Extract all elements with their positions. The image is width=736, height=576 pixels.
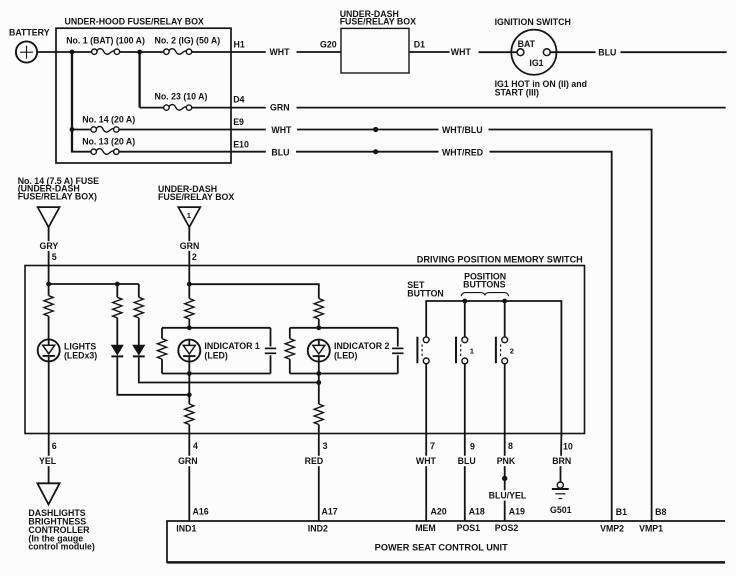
wire IG feed vertical xyxy=(138,52,140,108)
switch position button 1 xyxy=(456,301,475,364)
svg-text:No. 1 (BAT) (100 A): No. 1 (BAT) (100 A) xyxy=(66,36,145,46)
svg-text:GRN: GRN xyxy=(270,102,290,112)
svg-text:POS2: POS2 xyxy=(495,523,519,533)
dashlights brightness controller label xyxy=(28,508,95,552)
wire RED to A17 xyxy=(318,466,320,521)
svg-text:INDICATOR 2: INDICATOR 2 xyxy=(334,341,390,351)
svg-text:BLU: BLU xyxy=(598,47,616,57)
ground G501 xyxy=(550,482,572,515)
svg-text:No. 23 (10 A): No. 23 (10 A) xyxy=(155,92,208,102)
svg-text:YEL: YEL xyxy=(39,456,57,466)
fuse No.2 (IG) (50 A) xyxy=(155,36,221,55)
svg-text:A20: A20 xyxy=(431,507,447,517)
wire WHT to ignition switch xyxy=(479,51,518,53)
wire GRN vertical into box xyxy=(188,251,190,299)
node E9 splice xyxy=(373,127,378,132)
svg-text:No. 14 (20 A): No. 14 (20 A) xyxy=(82,114,135,124)
svg-text:E9: E9 xyxy=(233,117,244,127)
svg-text:9: 9 xyxy=(470,441,475,451)
LED lights (LEDx3) xyxy=(38,339,98,361)
wire GRN to A16 xyxy=(188,466,190,521)
wire GRY vertical into box xyxy=(48,251,50,296)
wire ignition to BLU xyxy=(550,51,595,53)
wire PNK to splice xyxy=(504,466,506,490)
svg-text:3: 3 xyxy=(323,441,328,451)
svg-text:PNK: PNK xyxy=(497,456,516,466)
svg-text:G20: G20 xyxy=(320,39,337,49)
wire WHT to A20 xyxy=(425,466,427,521)
wire fuse13 to box edge E10 xyxy=(119,151,265,153)
node pos2 bus junction xyxy=(502,299,507,304)
connector triangle 1 GRN xyxy=(178,207,200,227)
node IG feed junction xyxy=(137,50,142,55)
svg-text:B1: B1 xyxy=(616,507,627,517)
svg-text:FUSE/RELAY BOX: FUSE/RELAY BOX xyxy=(340,16,416,26)
svg-text:GRY: GRY xyxy=(40,241,59,251)
wire battery feed vertical xyxy=(71,52,73,152)
svg-text:D1: D1 xyxy=(414,39,425,49)
node PNK to BLU/YEL splice xyxy=(502,476,507,481)
node battery feed junction xyxy=(70,50,75,55)
resistor lights branch xyxy=(44,296,53,317)
diode branch 2 xyxy=(133,284,319,383)
svg-text:WHT/BLU: WHT/BLU xyxy=(442,125,483,135)
wire set button down pin 7 xyxy=(425,364,427,456)
svg-text:BLU/YEL: BLU/YEL xyxy=(489,490,527,500)
wire WHT/BLU to corner and down to B8 xyxy=(489,130,652,522)
fuse No.13 (20 A) xyxy=(82,136,135,154)
wire BLU to A18 xyxy=(464,466,466,521)
svg-text:BRN: BRN xyxy=(552,456,571,466)
svg-text:D4: D4 xyxy=(233,94,244,104)
svg-text:5: 5 xyxy=(52,252,57,262)
wire GRN vertical upper xyxy=(188,227,190,241)
svg-text:WHT: WHT xyxy=(270,47,291,57)
wire WHT/RED to corner and down to B1 xyxy=(490,152,612,521)
indicator2 parallel frame xyxy=(285,328,403,374)
svg-text:(LEDx3): (LEDx3) xyxy=(64,350,97,360)
svg-text:GRN: GRN xyxy=(178,456,198,466)
wire pin 3 xyxy=(318,425,320,456)
svg-text:G501: G501 xyxy=(550,505,572,515)
svg-text:6: 6 xyxy=(52,441,57,451)
wire D1 to WHT xyxy=(409,51,450,53)
svg-text:8: 8 xyxy=(508,441,513,451)
wire WHT to under-dash box xyxy=(297,51,342,53)
wire pin 4 xyxy=(188,425,190,456)
node pos1 bus junction xyxy=(462,299,467,304)
wire resistor to LED xyxy=(48,316,50,339)
svg-text:POS1: POS1 xyxy=(457,523,481,533)
wire WHT E9 with splice xyxy=(297,129,439,131)
node GRN bus junction xyxy=(187,282,192,287)
svg-text:2: 2 xyxy=(510,347,514,356)
battery xyxy=(9,28,50,63)
wire BLU/YEL to A19 xyxy=(504,501,506,521)
svg-text:IND2: IND2 xyxy=(308,523,328,533)
node diode1 to indicator1 xyxy=(187,392,192,397)
wire resistor to indicator2 xyxy=(318,319,320,328)
wire BRN to ground xyxy=(560,466,562,482)
node indicator2 top xyxy=(316,325,321,330)
LED indicator 1 xyxy=(178,340,260,362)
svg-text:UNDER-HOOD FUSE/RELAY BOX: UNDER-HOOD FUSE/RELAY BOX xyxy=(65,16,204,26)
svg-text:IND1: IND1 xyxy=(176,523,196,533)
wire fuse14 to box edge E9 xyxy=(119,129,265,131)
svg-text:BAT: BAT xyxy=(518,39,536,49)
wire BLU E10 with splice xyxy=(296,151,439,153)
position buttons label xyxy=(461,271,508,296)
wire indicator1 down xyxy=(188,362,190,404)
resistor indicator1 bottom xyxy=(185,404,194,425)
switch set button xyxy=(417,337,429,364)
resistor indicator2 top xyxy=(314,299,323,320)
under-dash fuse/relay box label (connector 1) xyxy=(158,184,234,202)
set button label xyxy=(407,280,444,298)
node indicator1 top xyxy=(187,325,192,330)
wire pos2 down pin 8 xyxy=(504,364,506,456)
svg-text:IGNITION SWITCH: IGNITION SWITCH xyxy=(495,17,571,27)
node GRY bus junction xyxy=(46,282,51,287)
ignition switch xyxy=(495,17,587,98)
driving position memory switch box xyxy=(25,254,585,433)
svg-text:RED: RED xyxy=(305,456,324,466)
svg-text:No. 2 (IG) (50 A): No. 2 (IG) (50 A) xyxy=(155,36,221,46)
wire indicator2 down xyxy=(318,362,320,404)
wire battery to fuse box xyxy=(37,51,91,53)
svg-text:2: 2 xyxy=(192,252,197,262)
switch position button 2 xyxy=(496,301,514,364)
svg-text:BLU: BLU xyxy=(271,147,289,157)
wire switch bus xyxy=(426,301,561,434)
svg-text:WHT: WHT xyxy=(451,47,472,57)
indicator1 parallel frame xyxy=(157,328,276,374)
svg-text:(LED): (LED) xyxy=(334,350,358,360)
wire GRY vertical upper xyxy=(48,227,50,241)
svg-text:control module): control module) xyxy=(28,542,95,552)
svg-text:WHT: WHT xyxy=(416,456,437,466)
svg-text:GRN: GRN xyxy=(180,241,200,251)
wire pos1 down pin 9 xyxy=(464,364,466,456)
LED indicator 2 xyxy=(308,340,390,362)
svg-text:WHT: WHT xyxy=(271,125,292,135)
wire BLU to right edge xyxy=(621,51,727,53)
svg-text:START (III): START (III) xyxy=(495,88,539,98)
svg-text:A17: A17 xyxy=(322,507,338,517)
node diode1 branch junction xyxy=(115,282,120,287)
node E10 splice xyxy=(373,149,378,154)
node indicator2 bottom xyxy=(316,371,321,376)
svg-text:A16: A16 xyxy=(193,507,209,517)
resistor indicator2 bottom xyxy=(314,404,323,425)
svg-text:(LED): (LED) xyxy=(204,350,228,360)
svg-text:INDICATOR 1: INDICATOR 1 xyxy=(204,341,260,351)
svg-text:VMP1: VMP1 xyxy=(639,524,663,534)
svg-text:BLU: BLU xyxy=(458,456,476,466)
fuse No.14 (20 A) xyxy=(82,114,135,132)
svg-text:BATTERY: BATTERY xyxy=(9,28,50,38)
svg-text:A18: A18 xyxy=(469,507,485,517)
wire fuse2 to box edge H1 xyxy=(192,51,266,53)
svg-text:WHT/RED: WHT/RED xyxy=(442,147,483,157)
wire pin 10 below box xyxy=(560,434,562,456)
wire GRN to right edge xyxy=(297,107,726,109)
svg-text:No. 13 (20 A): No. 13 (20 A) xyxy=(82,136,135,146)
svg-text:POWER SEAT CONTROL UNIT: POWER SEAT CONTROL UNIT xyxy=(375,542,509,552)
svg-text:FUSE/RELAY BOX: FUSE/RELAY BOX xyxy=(158,192,234,202)
node diode2 to indicator2 xyxy=(316,380,321,385)
diode branch 1 xyxy=(111,284,189,395)
svg-text:VMP2: VMP2 xyxy=(600,524,624,534)
wire LED to pin 6 xyxy=(48,361,50,455)
node E9 feed junction xyxy=(70,127,75,132)
svg-text:4: 4 xyxy=(193,441,198,451)
fuse No.23 (10 A) xyxy=(155,92,208,111)
connector triangle dashlights xyxy=(37,483,59,504)
svg-text:MEM: MEM xyxy=(415,523,436,533)
svg-text:A19: A19 xyxy=(509,507,525,517)
svg-text:10: 10 xyxy=(563,441,573,451)
under-hood fuse/relay box xyxy=(56,16,231,163)
wire battery feed corner to fuse13 xyxy=(71,151,91,153)
wire GRN horizontal to indicator2 xyxy=(189,284,318,298)
svg-text:E10: E10 xyxy=(233,139,249,149)
svg-text:B8: B8 xyxy=(655,507,666,517)
svg-text:BUTTON: BUTTON xyxy=(407,288,444,298)
wire fuse23 to box edge D4 xyxy=(192,107,266,109)
power seat control unit box xyxy=(167,521,725,563)
wire junction to fuse14 xyxy=(72,129,91,131)
node indicator1 bottom xyxy=(187,371,192,376)
wire resistor to indicator1 xyxy=(188,319,190,328)
svg-text:H1: H1 xyxy=(234,39,245,49)
svg-text:7: 7 xyxy=(430,441,435,451)
fuse No.1 (BAT) (100 A) xyxy=(66,36,145,55)
connector No.14 (7.5 A) fuse label xyxy=(18,176,99,201)
connector triangle GRY xyxy=(38,207,60,227)
svg-text:IG1: IG1 xyxy=(529,58,543,68)
wire fuse1 to junction xyxy=(120,51,164,53)
under-dash fuse/relay box (top) xyxy=(340,9,416,73)
resistor indicator1 top xyxy=(185,299,194,320)
wire GRY horizontal bus xyxy=(49,283,139,285)
wire YEL to dashlights triangle xyxy=(48,466,50,483)
wire IG feed to fuse23 xyxy=(140,107,164,109)
svg-text:BUTTONS: BUTTONS xyxy=(463,280,505,290)
svg-text:DRIVING POSITION MEMORY SWITCH: DRIVING POSITION MEMORY SWITCH xyxy=(417,254,583,264)
svg-text:FUSE/RELAY BOX): FUSE/RELAY BOX) xyxy=(18,191,97,201)
